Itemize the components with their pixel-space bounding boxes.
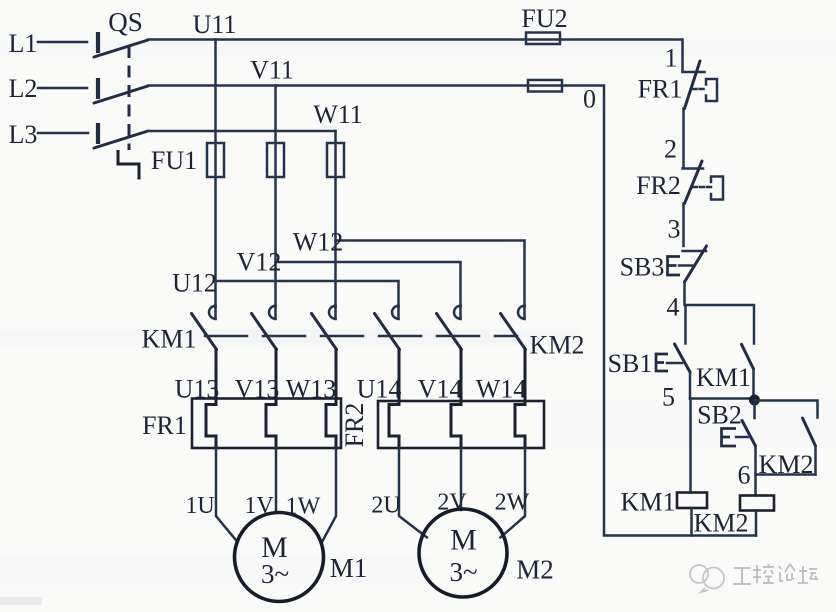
svg-text:3: 3: [668, 215, 681, 244]
svg-text:L2: L2: [9, 74, 38, 103]
svg-text:V14: V14: [418, 375, 463, 404]
svg-text:6: 6: [738, 461, 751, 490]
svg-text:KM1: KM1: [142, 325, 197, 354]
svg-text:M: M: [450, 524, 477, 557]
svg-text:FU2: FU2: [521, 4, 567, 33]
svg-text:1: 1: [665, 44, 678, 73]
svg-text:L3: L3: [9, 120, 38, 149]
svg-text:0: 0: [583, 85, 596, 114]
svg-text:4: 4: [667, 293, 680, 322]
svg-text:W12: W12: [293, 228, 344, 257]
svg-text:W13: W13: [286, 375, 337, 404]
svg-text:V11: V11: [250, 56, 294, 85]
svg-text:3~: 3~: [449, 557, 477, 587]
svg-text:KM2: KM2: [759, 450, 814, 479]
svg-text:KM2: KM2: [530, 331, 585, 360]
svg-text:M1: M1: [330, 553, 368, 583]
svg-text:1U: 1U: [185, 493, 214, 519]
svg-text:U13: U13: [175, 375, 220, 404]
svg-text:U14: U14: [357, 375, 402, 404]
svg-text:FR1: FR1: [638, 75, 683, 104]
svg-text:FR2: FR2: [636, 171, 681, 200]
svg-text:QS: QS: [108, 7, 143, 37]
svg-text:2: 2: [664, 135, 677, 164]
svg-text:5: 5: [662, 383, 675, 412]
svg-text:FU1: FU1: [151, 146, 197, 175]
svg-text:SB2: SB2: [697, 401, 742, 430]
svg-text:2V: 2V: [437, 490, 467, 516]
svg-text:V13: V13: [235, 375, 280, 404]
svg-text:W14: W14: [476, 375, 527, 404]
svg-text:1W: 1W: [286, 494, 321, 520]
svg-text:1V: 1V: [244, 493, 274, 519]
svg-text:2U: 2U: [371, 493, 400, 519]
svg-text:KM1: KM1: [621, 488, 676, 517]
svg-text:L1: L1: [9, 29, 38, 58]
svg-text:2W: 2W: [495, 490, 530, 516]
svg-text:FR1: FR1: [142, 411, 187, 440]
svg-text:U11: U11: [193, 10, 237, 39]
svg-text:SB1: SB1: [608, 349, 653, 378]
svg-text:W11: W11: [313, 100, 363, 129]
svg-text:SB3: SB3: [620, 253, 665, 282]
svg-text:V12: V12: [237, 248, 282, 277]
svg-text:M2: M2: [516, 555, 554, 585]
svg-text:KM2: KM2: [694, 509, 749, 538]
svg-text:KM1: KM1: [696, 363, 751, 392]
svg-text:U12: U12: [172, 269, 217, 298]
svg-text:FR2: FR2: [340, 403, 369, 448]
svg-text:3~: 3~: [261, 559, 289, 589]
